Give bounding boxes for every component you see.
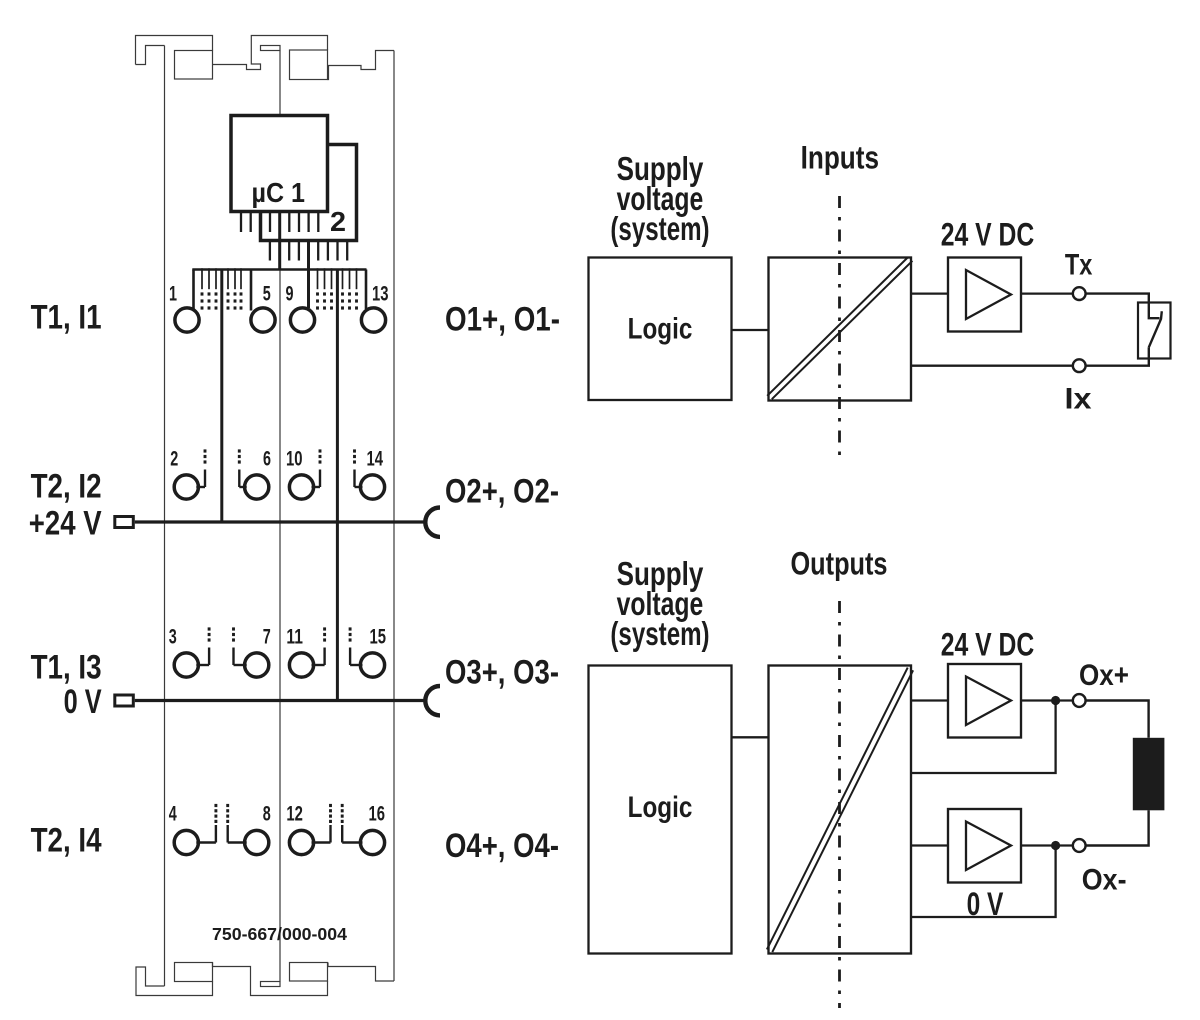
contact hook row 3 pos 2	[232, 627, 247, 665]
module bottom cap outline	[136, 963, 394, 996]
svg-text:T2, I2: T2, I2	[31, 468, 102, 506]
wire: sensor to Ix	[1086, 347, 1149, 365]
uC 1 label	[252, 177, 306, 208]
feedback wire upper (isolation to Ox+ junction)	[911, 701, 1056, 774]
svg-text:Outputs: Outputs	[791, 546, 888, 582]
amplifier triangle 0V	[966, 822, 1011, 871]
terminal circle Tx	[1073, 287, 1086, 300]
svg-text:Inputs: Inputs	[801, 140, 879, 176]
isolation diagonal upper	[767, 257, 912, 399]
contact hook row 2 pos 4	[353, 449, 362, 487]
wire: isolation to Ix terminal	[911, 365, 1073, 367]
contact comb teeth	[202, 268, 357, 289]
contact hook row 4 pos 4	[341, 804, 363, 843]
label 0 V	[64, 683, 102, 721]
terminal circle Ox+	[1073, 694, 1086, 707]
contact bus bar	[192, 268, 366, 271]
module left edge	[164, 46, 166, 987]
wire: isolation to amplifier upper	[911, 292, 948, 294]
wire: isolation to amplifier Ox+	[911, 699, 948, 701]
svg-text:14: 14	[367, 448, 384, 471]
svg-text:µC 1: µC 1	[252, 177, 306, 208]
contact hook row 4 pos 3	[312, 804, 332, 843]
svg-text:24 V DC: 24 V DC	[941, 217, 1035, 253]
svg-text:10: 10	[286, 448, 303, 471]
svg-text:2: 2	[170, 448, 178, 471]
wire: logic to isolation upper	[732, 329, 769, 331]
svg-text:T1, I3: T1, I3	[31, 649, 102, 687]
svg-text:O1+, O1-: O1+, O1-	[445, 301, 560, 339]
ASIC 2 pins	[270, 241, 347, 261]
contact hook row 4 pos 1	[196, 804, 217, 843]
amplifier box upper	[948, 258, 1021, 332]
label T2, I4	[31, 822, 102, 860]
wire: ASIC2 long pin to clamp 9	[307, 241, 310, 309]
label O2+, O2-	[445, 473, 559, 511]
wire: amplifier to Tx terminal	[1021, 292, 1073, 294]
label T2, I2	[31, 468, 102, 506]
part number label	[212, 924, 347, 944]
contact hook row 3 pos 3	[312, 627, 327, 665]
wire: load to Ox-	[1086, 810, 1149, 845]
clamp contacts row 4	[174, 830, 384, 854]
svg-text:750-667/000-004: 750-667/000-004	[212, 924, 347, 944]
dash-dot separation line upper	[838, 196, 841, 455]
wire: amplifier to Ox- terminal	[1021, 844, 1073, 846]
module right edge	[393, 51, 395, 982]
label Ox+	[1079, 659, 1129, 692]
svg-text:3: 3	[169, 625, 177, 648]
wire: Tx to sensor	[1086, 294, 1160, 319]
svg-text:13: 13	[372, 283, 389, 306]
label 24 V DC upper	[941, 217, 1035, 253]
wire: bus to clamp 13	[365, 270, 368, 310]
svg-text:O2+, O2-: O2+, O2-	[445, 473, 559, 511]
+24V rail	[135, 520, 426, 523]
svg-text:4: 4	[169, 803, 177, 826]
contact hook row 2 pos 3	[312, 449, 322, 487]
svg-text:(system): (system)	[610, 615, 709, 652]
sensor box	[1138, 303, 1171, 359]
ASIC 2 label	[330, 206, 346, 237]
+24V rail output arc	[425, 508, 440, 537]
module top cap outline	[136, 36, 395, 80]
label Supply voltage (system) lower	[610, 555, 709, 652]
wire: uC1 long pin to contact bus	[278, 212, 281, 270]
label Ox-	[1082, 864, 1127, 897]
clamp contacts row 2	[174, 475, 384, 499]
label Tx	[1065, 249, 1093, 282]
label T1, I1	[31, 299, 102, 337]
label Logic lower	[628, 791, 693, 824]
svg-text:Ox+: Ox+	[1079, 659, 1129, 692]
label T1, I3	[31, 649, 102, 687]
svg-text:O3+, O3-: O3+, O3-	[445, 654, 559, 692]
amplifier triangle upper	[966, 270, 1011, 319]
svg-text:(system): (system)	[610, 210, 709, 247]
clamp contacts row 3	[174, 653, 384, 677]
svg-text:T2, I4: T2, I4	[31, 822, 102, 860]
wire: amplifier to Ox+ terminal	[1021, 699, 1073, 701]
contact hook row 2 pos 1	[196, 449, 206, 487]
label Outputs	[791, 546, 888, 582]
0V supply box symbol	[115, 695, 134, 706]
dash-dot separation line lower	[838, 601, 841, 1008]
svg-text:6: 6	[263, 448, 271, 471]
wire: bus to +24V rail	[220, 270, 223, 523]
svg-text:1: 1	[169, 283, 177, 306]
microcontroller U1	[231, 116, 328, 212]
contact comb dots	[201, 292, 358, 309]
svg-text:11: 11	[286, 625, 303, 648]
label +24 V	[29, 505, 102, 543]
svg-text:+24 V: +24 V	[29, 505, 102, 543]
clamp contacts row 1 (terminals 1,5,9,13)	[175, 308, 386, 332]
svg-text:Ox-: Ox-	[1082, 864, 1127, 897]
wire: isolation to amplifier 0V	[911, 844, 948, 846]
+24V supply box symbol	[115, 517, 134, 528]
svg-text:15: 15	[370, 625, 387, 648]
wire: logic to isolation lower	[732, 736, 769, 738]
ASIC block 2	[261, 145, 357, 241]
label O1+, O1-	[445, 301, 560, 339]
contact hook row 3 pos 4	[349, 627, 363, 665]
logic box U3	[589, 666, 732, 954]
svg-text:Logic: Logic	[628, 791, 693, 824]
svg-text:7: 7	[263, 625, 271, 648]
module center divider line	[279, 51, 281, 982]
svg-text:Tx: Tx	[1065, 249, 1093, 282]
svg-text:12: 12	[286, 803, 303, 826]
svg-text:Logic: Logic	[628, 313, 693, 346]
junction dot Ox+	[1051, 696, 1060, 705]
label O4+, O4-	[445, 827, 559, 865]
0V rail output arc	[425, 686, 440, 715]
svg-text:2: 2	[330, 206, 346, 237]
terminal circle Ix	[1073, 359, 1086, 372]
logic box U2	[589, 258, 732, 401]
label 0 V amplifier	[967, 886, 1004, 922]
svg-text:O4+, O4-: O4+, O4-	[445, 827, 559, 865]
svg-text:9: 9	[286, 283, 294, 306]
svg-text:8: 8	[263, 803, 271, 826]
isolation barrier box upper	[769, 258, 912, 401]
wire: bus to clamp 5	[250, 270, 253, 311]
svg-text:5: 5	[263, 283, 271, 306]
svg-text:0 V: 0 V	[64, 683, 102, 721]
label Supply voltage (system) upper	[610, 150, 709, 247]
contact hook row 3 pos 1	[196, 627, 210, 665]
amplifier triangle Ox+	[966, 677, 1011, 726]
junction dot Ox-	[1051, 841, 1060, 850]
svg-text:16: 16	[369, 803, 386, 826]
load resistor (black)	[1133, 738, 1165, 811]
label 24 V DC lower	[941, 627, 1035, 663]
svg-text:24 V DC: 24 V DC	[941, 627, 1035, 663]
terminal circle Ox-	[1073, 839, 1086, 852]
contact hook row 4 pos 2	[226, 804, 246, 843]
sensor switch arm	[1149, 311, 1162, 347]
amplifier box 0V	[948, 809, 1021, 883]
label Ix	[1065, 383, 1092, 416]
wire: Ox+ to load	[1086, 701, 1149, 738]
wire: bus to clamp 1	[192, 270, 195, 309]
label O3+, O3-	[445, 654, 559, 692]
svg-text:Ix: Ix	[1065, 383, 1092, 416]
isolation barrier box lower	[769, 666, 912, 954]
label Inputs	[801, 140, 879, 176]
isolation diagonal lower	[767, 668, 913, 953]
uC1 pins	[241, 212, 318, 233]
amplifier box Ox+	[948, 664, 1021, 738]
0V rail	[135, 699, 426, 702]
svg-text:T1, I1: T1, I1	[31, 299, 102, 337]
terminal number labels	[169, 283, 389, 826]
contact hook row 2 pos 2	[238, 449, 247, 487]
feedback wire lower (isolation to Ox- junction)	[911, 846, 1056, 918]
label Logic upper	[628, 313, 693, 346]
wire: bus to 0V rail	[336, 270, 339, 701]
